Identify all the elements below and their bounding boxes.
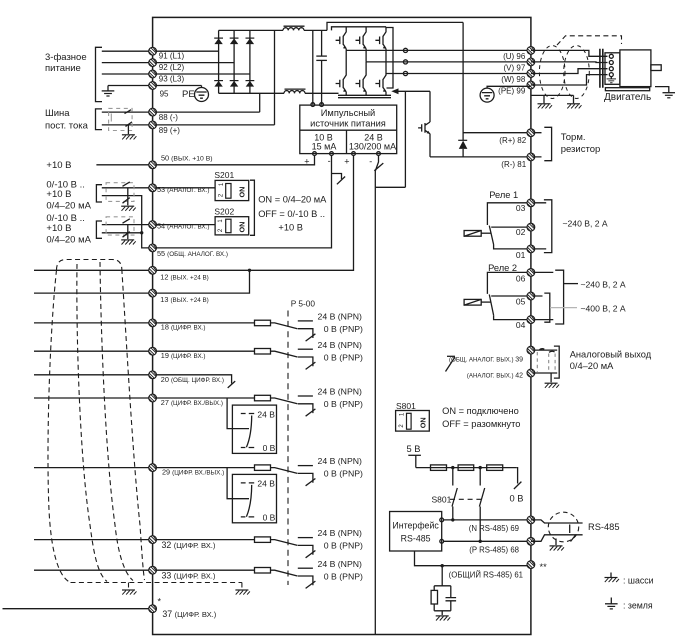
- wire +10V output to terminal 50: [96, 156, 314, 165]
- interface box RS-485: [390, 512, 442, 552]
- enclosure frame of frequency converter: [153, 17, 531, 634]
- svg-text:Реле 2: Реле 2: [488, 263, 517, 273]
- wire P to cable: [531, 535, 583, 542]
- rectifier column 1: [218, 30, 220, 93]
- terminal 55: [149, 244, 157, 252]
- svg-text:88 (-): 88 (-): [159, 113, 178, 122]
- contact 24V NPN row 32: [298, 537, 313, 539]
- terminal 13: [149, 289, 157, 297]
- wire bottom rail from choke to inverter bus: [305, 92, 339, 94]
- svg-text:(N RS-485) 69: (N RS-485) 69: [469, 524, 519, 533]
- resistor termination 2: [458, 465, 474, 471]
- svg-text:19 (ЦИФР. ВХ.): 19 (ЦИФР. ВХ.): [161, 351, 206, 360]
- svg-text:RS-485: RS-485: [401, 534, 431, 544]
- svg-text:3-фазное: 3-фазное: [45, 52, 87, 63]
- wire relay2 contact 06: [487, 272, 531, 294]
- wire SMPS tap riser: [312, 30, 314, 104]
- svg-text:(R-) 81: (R-) 81: [501, 160, 526, 169]
- inductor L- (bottom): [284, 89, 306, 93]
- dashed cable core 2: [77, 264, 107, 582]
- svg-text:резистор: резистор: [561, 144, 601, 155]
- junction P node: [479, 540, 482, 543]
- coil relay 1: [464, 231, 491, 237]
- terminal 82: [527, 129, 535, 137]
- svg-text:(PE) 99: (PE) 99: [498, 87, 526, 96]
- svg-text:05: 05: [516, 297, 526, 307]
- pointer arrow analog output common: [446, 356, 456, 371]
- dashed cable core 1: [48, 270, 71, 583]
- wire common RS-485 from box to terminal 61: [415, 551, 531, 566]
- terminal 69: [527, 516, 535, 524]
- bracket analog input 53: [96, 185, 102, 202]
- wire -10V to terminal 55 common: [153, 156, 332, 248]
- svg-text:89 (+): 89 (+): [159, 126, 180, 135]
- svg-text:03: 03: [516, 203, 526, 213]
- PE symbol circle at terminal 95: [195, 86, 209, 102]
- wire signal to terminal 54: [102, 224, 215, 226]
- svg-text:130/200 мА: 130/200 мА: [349, 141, 396, 151]
- chassis ground RC: [436, 616, 451, 621]
- node W output circle: [403, 71, 407, 75]
- wire relay2 common 05: [491, 295, 531, 297]
- terminal 20: [149, 371, 157, 379]
- svg-text:**: **: [540, 562, 548, 572]
- wire termination rail: [416, 467, 517, 469]
- terminal 61: [527, 561, 535, 569]
- dashed cores analog output cable: [537, 349, 555, 372]
- svg-text:+10 В: +10 В: [46, 160, 71, 171]
- bracket mains group: [96, 47, 103, 101]
- SMPS divider lines: [300, 130, 397, 153]
- chassis ground shield 53: [121, 206, 136, 211]
- svg-text:0/4–20 мА: 0/4–20 мА: [46, 234, 91, 245]
- SMPS input pin 1: [311, 103, 315, 107]
- svg-text:ON: ON: [418, 417, 427, 428]
- rectifier column 3: [249, 30, 251, 93]
- svg-text:24 В (NPN): 24 В (NPN): [318, 340, 363, 350]
- svg-text:13 (ВЫХ. +24 В): 13 (ВЫХ. +24 В): [160, 295, 208, 304]
- svg-text:0 В: 0 В: [263, 443, 276, 453]
- switch S201 box: [215, 180, 249, 200]
- SMPS output pin +24V: [352, 152, 356, 156]
- node 5V supply: [408, 455, 421, 467]
- shield dashed box 54: [106, 217, 134, 239]
- bracket relay2 inner: [544, 293, 550, 322]
- svg-text:24 В: 24 В: [257, 409, 275, 419]
- DC link capacitor: [316, 30, 327, 104]
- SMPS input pin 2: [320, 103, 324, 107]
- wire relay1 common 02: [491, 226, 531, 228]
- wire stubs relay2 terminals: [535, 272, 554, 319]
- label 10V rating: [312, 132, 337, 151]
- svg-text:Импульсный: Импульсный: [321, 108, 375, 118]
- terminal 54: [149, 221, 157, 229]
- svg-text:55 (ОБЩ. АНАЛОГ. ВХ.): 55 (ОБЩ. АНАЛОГ. ВХ.): [157, 249, 228, 258]
- wire top rail from choke to inverter: [304, 29, 327, 31]
- svg-text:OFF = разомкнуто: OFF = разомкнуто: [442, 419, 520, 429]
- motor body: [620, 50, 651, 87]
- junction rail node B: [479, 466, 482, 469]
- wire terminal 39 into shield: [535, 349, 557, 351]
- svg-text:92 (L2): 92 (L2): [159, 63, 185, 72]
- chassis ground under RFI switch: [122, 135, 137, 140]
- legend earth symbol: [605, 598, 618, 609]
- svg-text:(P RS-485) 68: (P RS-485) 68: [469, 546, 519, 555]
- dashed gang link S801: [450, 498, 484, 500]
- svg-text:Реле 1: Реле 1: [489, 190, 518, 200]
- wire terminal 82 row: [463, 132, 531, 134]
- svg-text:Интерфейс: Интерфейс: [392, 521, 439, 531]
- transistor brake IGBT: [418, 122, 430, 157]
- wire relay1 contact 03: [487, 203, 531, 225]
- svg-text:0 В (PNP): 0 В (PNP): [324, 399, 363, 409]
- wire L2 to terminal 92: [102, 62, 234, 64]
- motor shaft: [651, 65, 661, 71]
- terminal 91: [149, 47, 157, 55]
- svg-text:12 (ВЫХ. +24 В): 12 (ВЫХ. +24 В): [160, 272, 208, 281]
- switch blade relay1: [489, 226, 493, 245]
- shield ellipse RS-485 cable: [548, 512, 578, 542]
- RC network to chassis: [431, 566, 456, 615]
- dashed parameter line P5-00: [287, 311, 289, 586]
- diode D5 lower col2: [230, 81, 239, 87]
- contact 0V PNP row 18 with hook: [298, 329, 313, 338]
- wire DC- riser from bottom rail to 88 row: [259, 93, 261, 112]
- wire relay2 contact 04: [494, 315, 531, 319]
- svg-text:0 В (PNP): 0 В (PNP): [324, 541, 363, 551]
- SMPS output pin -10V: [330, 152, 334, 156]
- svg-text:~240 В, 2 А: ~240 В, 2 А: [581, 280, 626, 290]
- svg-text:ON: ON: [238, 187, 247, 198]
- junction 12/13 tee: [248, 269, 251, 272]
- switch blade relay2: [489, 295, 493, 316]
- svg-text:OFF = 0/-10 В ..: OFF = 0/-10 В ..: [258, 209, 325, 219]
- svg-text:0/4–20 мА: 0/4–20 мА: [570, 361, 614, 371]
- svg-text:~400 В, 2 А: ~400 В, 2 А: [581, 303, 626, 313]
- terminal 27: [149, 394, 157, 402]
- label 24V rating: [349, 132, 396, 151]
- PE symbol circle at terminal 99: [480, 86, 531, 102]
- contact 24V NPN row 18: [298, 320, 313, 322]
- svg-text:Аналоговый выход: Аналоговый выход: [570, 350, 652, 360]
- svg-text:RS-485: RS-485: [588, 522, 620, 532]
- interface pin P: [440, 539, 444, 543]
- label analog range 54: [46, 213, 91, 245]
- junction N node: [451, 518, 454, 521]
- wire signal to terminal 53: [102, 187, 215, 189]
- svg-text:01: 01: [516, 250, 526, 260]
- junction RC tee: [441, 564, 444, 567]
- svg-text:S801: S801: [432, 495, 452, 505]
- wire phase W output: [386, 73, 531, 75]
- switch S801-b: [479, 468, 484, 542]
- terminal 12: [149, 266, 157, 274]
- wire DC+ riser from top rail to 89 row: [274, 30, 276, 125]
- wire brake bottom to terminal 81 row: [430, 156, 531, 158]
- svg-text:20 (ОБЩ. ЦИФР. ВХ.): 20 (ОБЩ. ЦИФР. ВХ.): [161, 375, 224, 384]
- svg-text:15 мА: 15 мА: [312, 141, 337, 151]
- svg-text:24 В (NPN): 24 В (NPN): [318, 312, 363, 322]
- shield ellipse 1 of motor cable: [539, 46, 565, 99]
- terminal 81: [527, 153, 535, 161]
- wire phase U output: [346, 49, 531, 51]
- svg-text:-: -: [328, 156, 331, 166]
- diode D3 upper col3: [246, 38, 255, 44]
- dashed cable top loop: [57, 260, 122, 271]
- diode D2 upper col2: [230, 38, 239, 44]
- motor pin W: [609, 67, 613, 71]
- wire stubs 82/81 to bracket: [535, 133, 542, 157]
- earth ground at motor: [663, 93, 675, 98]
- svg-text:24 В: 24 В: [257, 479, 275, 489]
- svg-text:S201: S201: [214, 170, 234, 180]
- svg-text:питание: питание: [45, 63, 81, 74]
- svg-text:0 В (PNP): 0 В (PNP): [324, 469, 363, 479]
- DC- bottom rail: [219, 92, 284, 94]
- svg-text:91 (L1): 91 (L1): [159, 52, 185, 61]
- wire link 12 to 13: [153, 270, 250, 293]
- svg-text:0 В (PNP): 0 В (PNP): [324, 571, 363, 581]
- resistor input 32: [255, 537, 271, 543]
- svg-text:0 В: 0 В: [510, 494, 524, 504]
- terminal 19: [149, 347, 157, 355]
- switch S801 box: [396, 411, 430, 432]
- svg-text:24 В (NPN): 24 В (NPN): [318, 559, 363, 569]
- switch blade input 19: [271, 351, 298, 357]
- node V output circle: [403, 60, 407, 64]
- chassis ground cable screen 1: [122, 590, 137, 595]
- bracket brake resistor: [544, 127, 551, 160]
- inverter bracket: [387, 28, 394, 89]
- switch blade input 32: [271, 540, 298, 546]
- label mains supply: [45, 52, 87, 74]
- switch on -24V output: [374, 156, 383, 172]
- contact 24V NPN row 27: [298, 395, 313, 397]
- terminal 97: [527, 58, 535, 66]
- wire digital input 33: [34, 569, 255, 571]
- transistor IGBT upper V: [356, 27, 367, 62]
- wire digital input 29: [34, 467, 255, 469]
- wire shield drain RS-485: [555, 539, 557, 546]
- chassis ground shield 54: [121, 240, 136, 245]
- switch rail end to 0V: [514, 468, 522, 489]
- svg-text:-: -: [369, 157, 372, 167]
- svg-text:18 (ЦИФР. ВХ.): 18 (ЦИФР. ВХ.): [161, 323, 206, 332]
- wire digital input 18: [34, 322, 255, 324]
- chassis ground screen clamp 2: [567, 104, 582, 109]
- resistor input 27: [255, 395, 271, 401]
- motor pin V: [609, 61, 613, 65]
- wire branch 29 to jumper box: [227, 468, 249, 499]
- resistor input 19: [255, 349, 271, 355]
- wire left stub 12: [34, 269, 153, 271]
- transistor IGBT lower V: [356, 62, 367, 95]
- resistor termination 3: [487, 465, 503, 471]
- terminal 05: [527, 292, 535, 300]
- wire motor earth: [655, 87, 669, 93]
- terminal 39: [527, 346, 535, 354]
- wire U to motor: [531, 50, 608, 56]
- svg-text:24 В (NPN): 24 В (NPN): [318, 528, 363, 538]
- inverter negative bus double line: [338, 95, 391, 97]
- wire brake chopper drop: [429, 91, 431, 122]
- svg-text:0 В: 0 В: [263, 513, 276, 523]
- diode brake freewheel: [458, 140, 467, 157]
- diode D4 lower col1: [214, 81, 223, 87]
- wire digital input 27: [34, 397, 255, 399]
- chassis ground cable screen 2: [235, 590, 250, 595]
- wire left stub 13: [34, 292, 153, 294]
- svg-text:(ОБЩ. АНАЛОГ. ВЫХ.) 39: (ОБЩ. АНАЛОГ. ВЫХ.) 39: [449, 356, 523, 363]
- label SMPS title: [310, 108, 386, 128]
- resistor input 18: [255, 320, 271, 326]
- terminal 99: [527, 81, 535, 89]
- terminal 53: [149, 184, 157, 192]
- label DC bus: [45, 108, 89, 132]
- DC+ top rail: [219, 29, 283, 31]
- svg-text:пост. тока: пост. тока: [45, 121, 89, 132]
- wire V to motor: [531, 61, 608, 64]
- wire P RS-485 to terminal 68: [444, 540, 531, 542]
- contact 0V PNP row 33 with hook: [298, 576, 313, 585]
- motor base: [605, 88, 649, 91]
- terminal 98: [527, 70, 535, 78]
- svg-text:Торм.: Торм.: [561, 132, 586, 143]
- dashed screen drop 1: [128, 583, 130, 589]
- shield tick inside cable: [569, 525, 571, 534]
- legend chassis symbol: [605, 573, 620, 583]
- transistor IGBT upper W: [375, 27, 386, 74]
- terminal 01: [527, 245, 535, 253]
- svg-text:(U) 96: (U) 96: [503, 52, 526, 61]
- earth ground inside motor box: [607, 77, 616, 83]
- contact 0V PNP row 32 with hook: [298, 545, 313, 554]
- bracket relay2 outer: [555, 270, 563, 324]
- svg-text:54 (АНАЛОГ. ВХ.): 54 (АНАЛОГ. ВХ.): [157, 222, 209, 231]
- shield end diagonal: [571, 535, 577, 542]
- wire DC- to terminal 88: [102, 111, 260, 113]
- transistor IGBT upper U: [336, 27, 347, 51]
- diode D1 upper col1: [214, 38, 223, 44]
- terminal 95: [149, 82, 157, 90]
- contact 0V PNP row 19 with hook: [298, 357, 313, 366]
- wire relay1 contact 01: [494, 245, 531, 249]
- bracket analog output shield: [554, 346, 559, 378]
- svg-text:(АНАЛОГ. ВЫХ.) 42: (АНАЛОГ. ВЫХ.) 42: [467, 373, 523, 380]
- terminal 33: [149, 566, 157, 574]
- switch blade input 27: [271, 398, 298, 404]
- wire pointer 400V relay2 (grey): [550, 307, 577, 309]
- wire 0V rail drop (long): [374, 171, 376, 635]
- junction 54 common tee: [140, 231, 143, 234]
- resistor input 29: [255, 465, 271, 471]
- terminal 29: [149, 464, 157, 472]
- switch S801-a: [452, 468, 457, 520]
- wire L3 to terminal 93: [102, 73, 250, 75]
- terminal 04: [527, 316, 535, 324]
- terminal 06: [527, 269, 535, 277]
- wire N RS-485 to terminal 69: [444, 519, 531, 521]
- bracket S201/S202: [250, 180, 254, 235]
- diode D6 lower col3: [246, 81, 255, 87]
- dashed cable core 4: [122, 269, 145, 580]
- svg-text:37 (ЦИФР. ВХ.): 37 (ЦИФР. ВХ.): [162, 609, 216, 619]
- coil relay 2: [464, 299, 491, 305]
- svg-text:0 В (PNP): 0 В (PNP): [324, 352, 363, 362]
- switch on -10V output: [332, 174, 346, 185]
- label brake resistor: [561, 132, 601, 155]
- motor terminal box: [605, 53, 620, 85]
- wire DC+ link jog: [327, 22, 463, 30]
- svg-text:93 (L3): 93 (L3): [159, 74, 185, 83]
- transistor IGBT lower W: [375, 74, 386, 96]
- terminal 68: [527, 537, 535, 545]
- dashed screen drop 2: [241, 583, 243, 589]
- contact 24V NPN row 33: [298, 567, 313, 569]
- terminal 50: [149, 161, 157, 169]
- svg-text:33 (ЦИФР. ВХ.): 33 (ЦИФР. ВХ.): [162, 571, 216, 581]
- terminal 88: [149, 108, 157, 116]
- terminal 32: [149, 536, 157, 544]
- svg-text:ON = подключено: ON = подключено: [442, 406, 519, 416]
- wire screen clamp branch: [531, 95, 574, 103]
- terminal 42: [527, 369, 535, 377]
- hook at end of common 20: [34, 375, 232, 384]
- contact 24V NPN row 29: [298, 465, 313, 467]
- svg-text:24 В (NPN): 24 В (NPN): [318, 456, 363, 466]
- interface pin N: [440, 518, 444, 522]
- node U output circle: [403, 48, 407, 52]
- shield dashed box 53: [106, 182, 134, 205]
- wire stub 03 to bracket: [535, 203, 546, 249]
- svg-text:+10 В: +10 В: [278, 223, 303, 233]
- svg-text:24 В (NPN): 24 В (NPN): [318, 387, 363, 397]
- wire control drop from inverter to control card: [375, 91, 405, 187]
- SMPS box: [300, 105, 397, 154]
- svg-text:*: *: [158, 597, 162, 607]
- svg-text:источник питания: источник питания: [310, 119, 386, 129]
- wire digital input 19: [34, 350, 255, 352]
- terminal 03: [527, 199, 535, 207]
- wire shield drain analog output: [550, 373, 552, 382]
- SMPS output pin +10V: [313, 152, 317, 156]
- motor pin U: [609, 54, 613, 58]
- svg-text:+: +: [344, 157, 349, 167]
- transistor IGBT lower U: [336, 50, 347, 95]
- svg-text:0/4–20 мА: 0/4–20 мА: [46, 201, 91, 212]
- svg-text:06: 06: [516, 273, 526, 283]
- chassis ground RS-485 shield: [550, 546, 565, 551]
- jumper box 29: [232, 474, 276, 522]
- rectifier column 2: [233, 30, 235, 93]
- svg-text:PE: PE: [182, 89, 195, 100]
- svg-text:~240 В, 2 А: ~240 В, 2 А: [563, 219, 608, 229]
- svg-text:(ОБЩИЙ RS-485) 61: (ОБЩИЙ RS-485) 61: [449, 570, 523, 579]
- svg-text:0 В (PNP): 0 В (PNP): [324, 324, 363, 334]
- wire 53 common drop: [102, 196, 153, 248]
- svg-text:50 (ВЫХ. +10 В): 50 (ВЫХ. +10 В): [161, 153, 213, 162]
- RFI switch dashed box: [109, 108, 133, 134]
- dashed cable core 3: [100, 262, 133, 581]
- svg-text:S801: S801: [396, 401, 416, 411]
- wire terminal 42 into shield: [535, 372, 557, 374]
- svg-text:27 (ЦИФР. ВХ./ВЫХ.): 27 (ЦИФР. ВХ./ВЫХ.): [161, 398, 223, 407]
- motor M flange: [600, 49, 603, 88]
- junction rail node A: [451, 466, 454, 469]
- switch blade input 33: [271, 570, 298, 576]
- SMPS output pin -24V: [377, 152, 381, 156]
- svg-text:32 (ЦИФР. ВХ.): 32 (ЦИФР. ВХ.): [162, 540, 216, 550]
